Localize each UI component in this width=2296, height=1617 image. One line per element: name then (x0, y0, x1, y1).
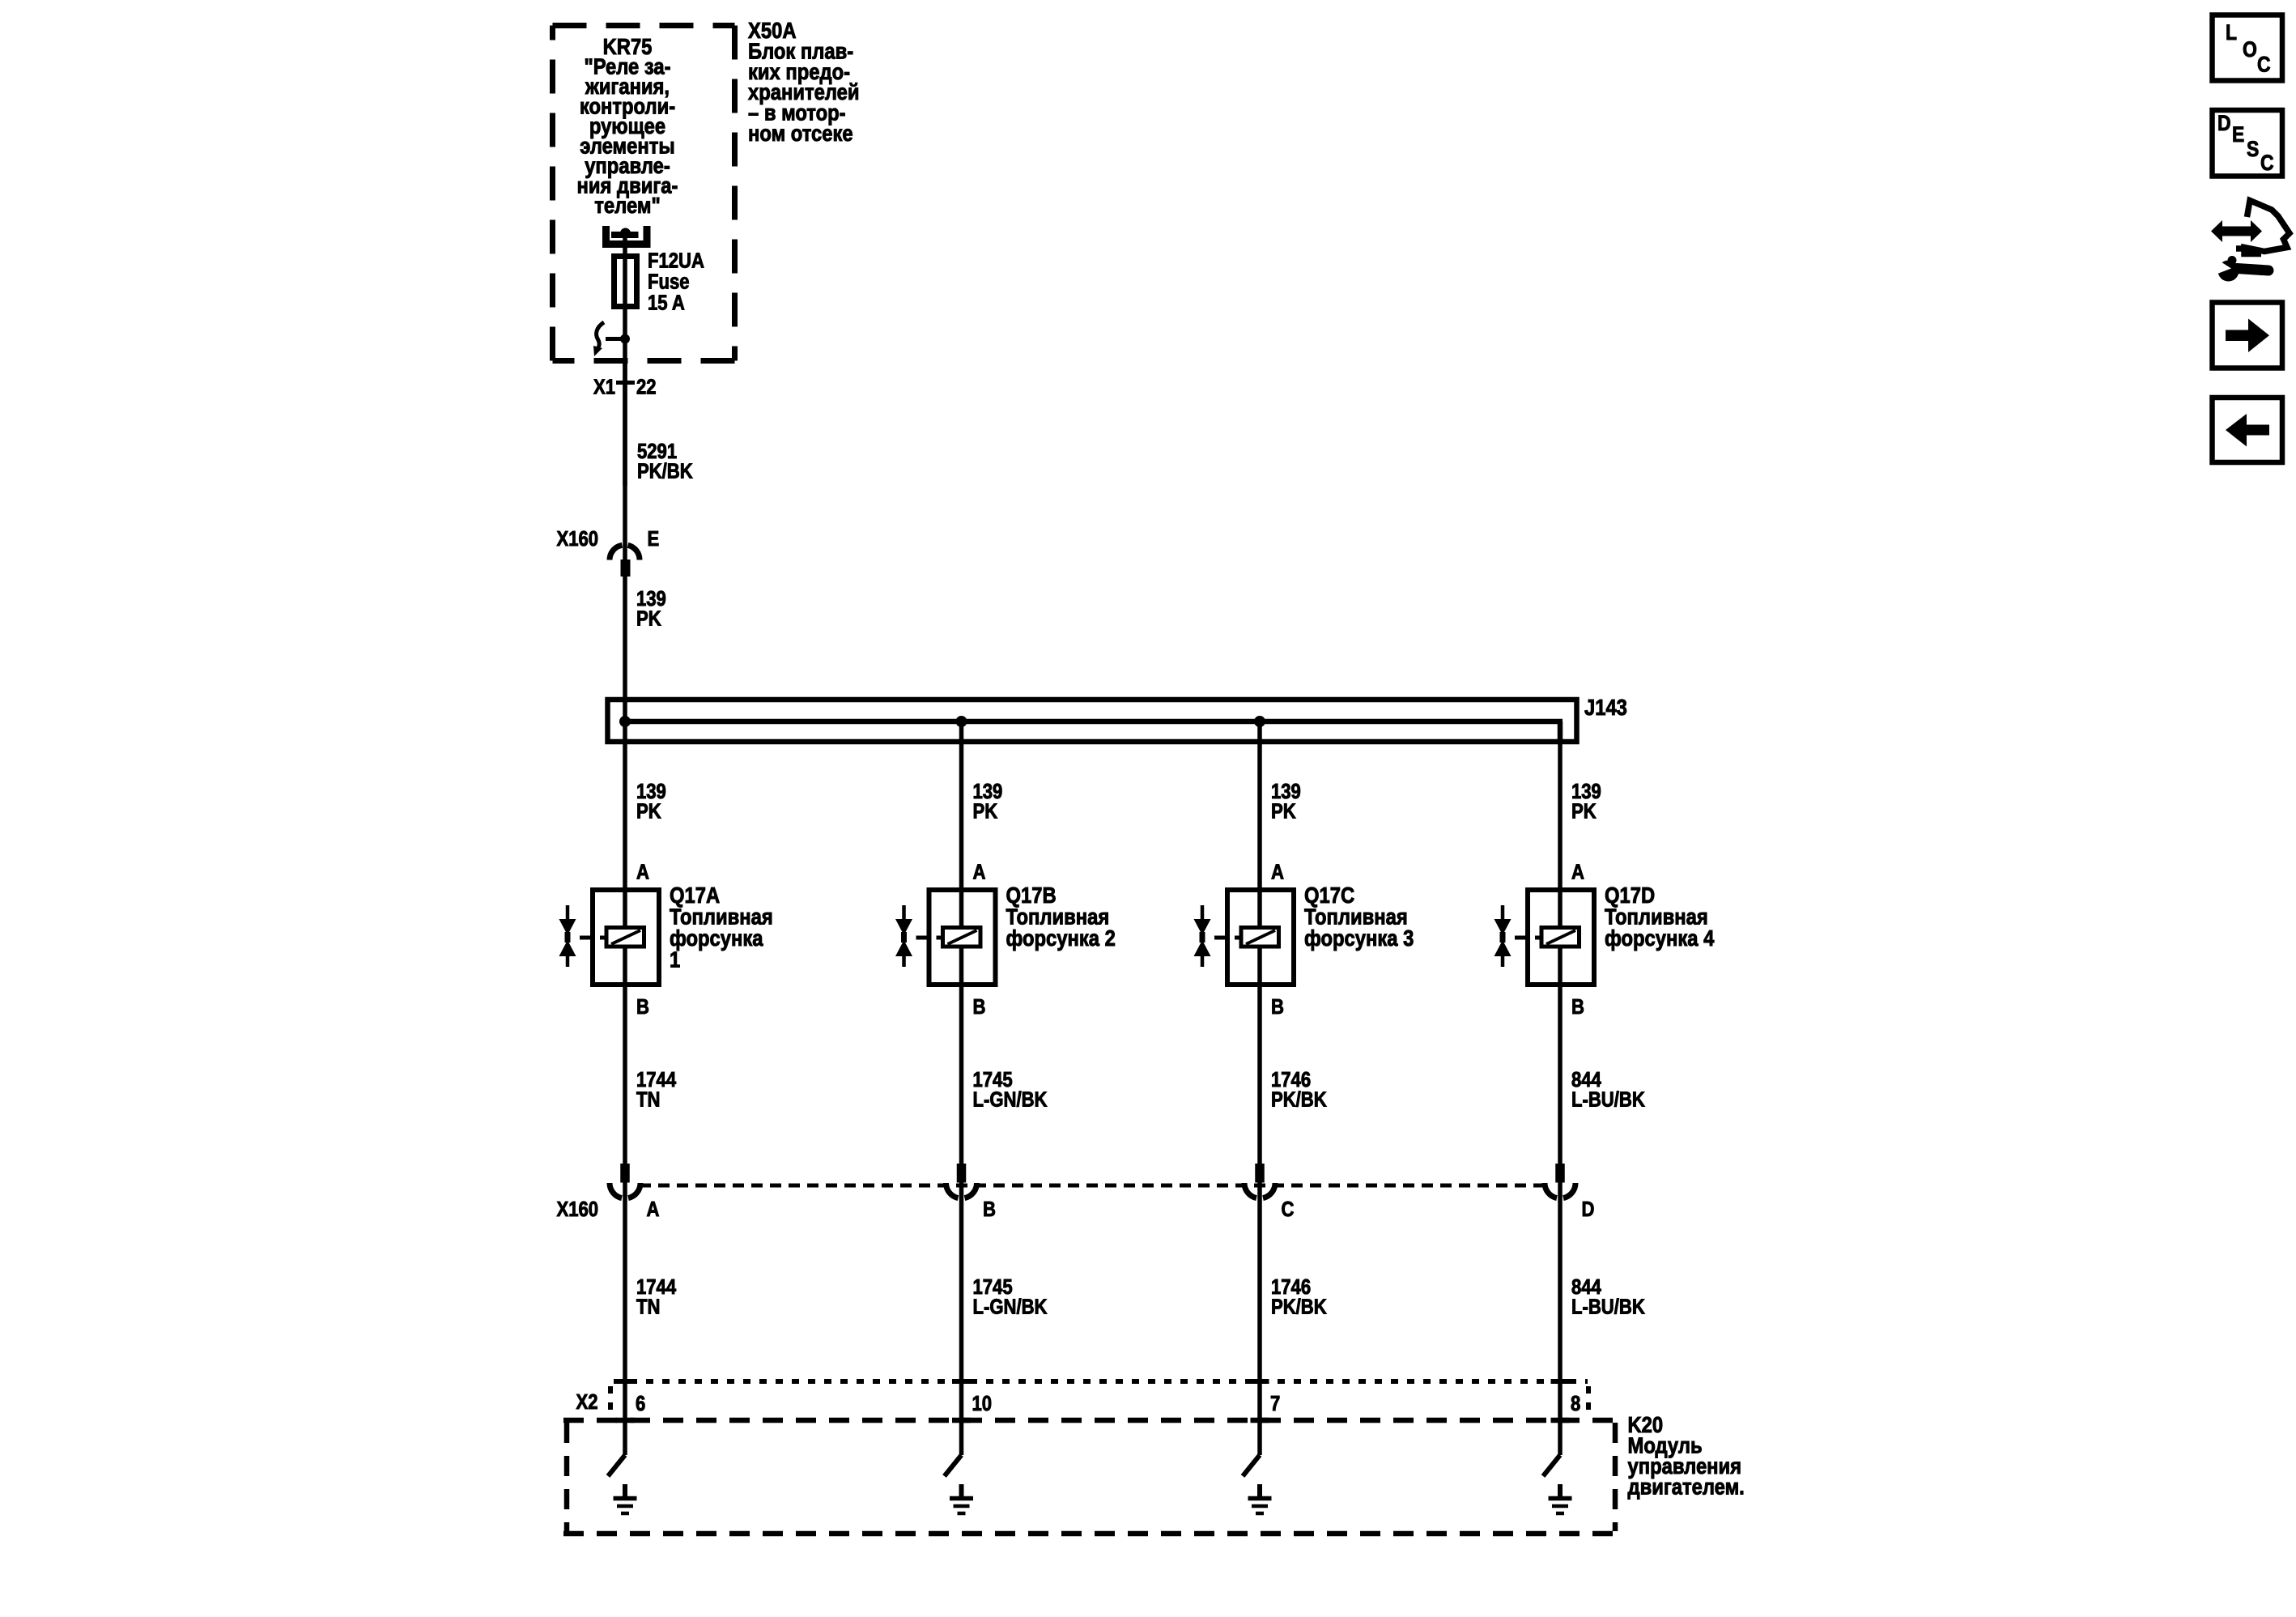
icon next arrow box (2213, 303, 2283, 368)
svg-text:Fuse: Fuse (648, 270, 690, 294)
wire 5291 PK/BK (623, 361, 627, 545)
injector Q17D label (1605, 882, 1715, 951)
driver switch (injector 2) (945, 1455, 962, 1476)
injector Q17C box (1227, 890, 1294, 985)
svg-text:форсунка 4: форсунка 4 (1605, 925, 1715, 951)
svg-text:TN: TN (636, 1088, 660, 1112)
K20 edge tick (wire 2) (952, 1418, 971, 1423)
svg-text:E: E (648, 527, 660, 551)
fuse block X50A (dashed box) (553, 26, 735, 361)
fuse F12UA (614, 257, 637, 307)
svg-text:B: B (1271, 995, 1284, 1019)
svg-text:двигателем.: двигателем. (1628, 1474, 1745, 1500)
icon DESC box (2213, 110, 2283, 177)
injector Q17B box (929, 890, 996, 985)
wire 139 label (branch 1) (636, 780, 666, 823)
svg-text:X160: X160 (557, 1198, 599, 1221)
wire 5291 label (637, 440, 693, 483)
svg-text:L-BU/BK: L-BU/BK (1571, 1088, 1645, 1112)
relay KR75 contact (606, 226, 648, 245)
svg-text:X160: X160 (557, 527, 599, 551)
svg-text:8: 8 (1571, 1392, 1580, 1415)
svg-text:PK: PK (973, 800, 998, 823)
svg-text:A: A (647, 1198, 660, 1221)
svg-text:X2: X2 (576, 1390, 598, 1414)
ground (injector 1 driver) (614, 1484, 637, 1513)
svg-text:O: O (2243, 37, 2257, 62)
svg-text:E: E (2232, 122, 2244, 147)
wire 1744 label (lower) (636, 1275, 677, 1319)
driver switch (injector 3) (1243, 1455, 1260, 1476)
injector Q17C label (1304, 882, 1414, 951)
svg-text:PK: PK (636, 607, 661, 631)
connector X160 line (dashed) (640, 1184, 1544, 1188)
svg-text:PK: PK (1571, 800, 1597, 823)
connector X160 pin B (946, 1164, 976, 1198)
ground (injector 2 driver) (950, 1484, 973, 1513)
connector X2 line (dotted) (610, 1381, 1588, 1415)
ECM K20 box (dashed) (563, 1420, 1618, 1534)
svg-text:L-GN/BK: L-GN/BK (973, 1296, 1048, 1319)
ECM K20 label (1628, 1411, 1745, 1500)
wire 1746 label (lower) (1271, 1275, 1327, 1319)
svg-text:10: 10 (972, 1392, 993, 1415)
svg-text:ном отсеке: ном отсеке (748, 120, 853, 146)
svg-text:форсунка 3: форсунка 3 (1304, 925, 1414, 951)
icon LOC box (2213, 15, 2283, 81)
injector Q17B coil (937, 928, 981, 947)
injector Q17A box (593, 890, 659, 985)
svg-text:1: 1 (670, 947, 680, 972)
connector X2 pin 8 tick (1551, 1379, 1570, 1384)
svg-text:D: D (1582, 1198, 1595, 1221)
connector X160 pin D (1545, 1164, 1575, 1198)
injector Q17D coil (1535, 928, 1580, 947)
K20 edge tick (wire 3) (1251, 1418, 1269, 1423)
svg-text:PK/BK: PK/BK (1271, 1296, 1327, 1319)
svg-text:L-GN/BK: L-GN/BK (973, 1088, 1048, 1112)
connector X160 pin A (610, 1164, 640, 1198)
injector Q17B nozzle (895, 905, 927, 967)
wire 844 label (lower) (1571, 1275, 1645, 1319)
wire (relay to X1 pin 22) (623, 233, 627, 486)
injector Q17D box (1528, 890, 1594, 985)
injector Q17A label (670, 882, 773, 972)
junction dot (wire 2) (956, 716, 967, 727)
switch (ignition feed contact) (593, 322, 630, 356)
injector Q17B label (1006, 882, 1116, 951)
icon repair (double arrow) (2211, 220, 2262, 242)
svg-text:PK: PK (636, 800, 661, 823)
wire 1746 label (upper) (1271, 1068, 1327, 1112)
svg-text:PK/BK: PK/BK (637, 460, 693, 483)
svg-text:J143: J143 (1584, 694, 1627, 720)
svg-text:C: C (1282, 1198, 1295, 1221)
svg-text:B: B (636, 995, 649, 1019)
driver switch (injector 1) (608, 1455, 625, 1476)
injector Q17C nozzle (1194, 905, 1226, 967)
wire 844 label (upper) (1571, 1068, 1645, 1112)
K20 edge tick (wire 4) (1551, 1418, 1570, 1423)
connector X1 pin 22 tick (616, 381, 635, 385)
wire (injector 4 branch) (1558, 721, 1563, 1455)
injector Q17C coil (1235, 928, 1279, 947)
wire 139 label (branch 4) (1571, 780, 1601, 823)
fuse F12UA value label (648, 249, 704, 315)
svg-text:C: C (2257, 53, 2271, 77)
svg-text:B: B (983, 1198, 996, 1221)
connector X2 pin 7 tick (1251, 1379, 1269, 1384)
relay KR75 label (577, 33, 678, 218)
connector X160 pin C (1244, 1164, 1275, 1198)
icon repair (hand outline) (2236, 201, 2290, 254)
connector X50A label (748, 17, 860, 146)
svg-text:A: A (636, 861, 649, 884)
svg-text:B: B (1571, 995, 1584, 1019)
svg-text:F12UA: F12UA (648, 249, 704, 273)
driver switch (injector 4) (1543, 1455, 1560, 1476)
svg-text:7: 7 (1270, 1392, 1280, 1415)
wire 139 label (feed) (636, 587, 666, 631)
ground (injector 3 driver) (1248, 1484, 1272, 1513)
svg-text:15 A: 15 A (648, 291, 685, 315)
svg-text:PK/BK: PK/BK (1271, 1088, 1327, 1112)
svg-text:6: 6 (636, 1392, 645, 1415)
svg-text:X1: X1 (593, 376, 615, 399)
svg-text:L-BU/BK: L-BU/BK (1571, 1296, 1645, 1319)
svg-text:PK: PK (1271, 800, 1296, 823)
svg-text:D: D (2217, 111, 2231, 135)
injector Q17A coil (600, 928, 644, 947)
connector X160 pin E symbol (610, 545, 640, 577)
injector Q17A nozzle (559, 905, 591, 967)
svg-text:форсунка 2: форсунка 2 (1006, 925, 1116, 951)
wire 1745 label (lower) (973, 1275, 1048, 1319)
svg-text:форсунка: форсунка (670, 925, 763, 951)
connector X2 pin 10 tick (952, 1379, 971, 1384)
icon repair (wrench) (2217, 256, 2268, 282)
svg-text:A: A (973, 861, 986, 884)
wire (injector 2 branch) (959, 721, 964, 1455)
svg-text:B: B (973, 995, 986, 1019)
wire 1745 label (upper) (973, 1068, 1048, 1112)
ground (injector 4 driver) (1549, 1484, 1572, 1513)
icon previous arrow box (2213, 398, 2283, 462)
wire (injector 3 branch) (1257, 721, 1262, 1455)
svg-text:22: 22 (636, 376, 657, 399)
svg-text:L: L (2226, 20, 2237, 45)
wire 1744 label (upper) (636, 1068, 677, 1112)
injector Q17D nozzle (1495, 905, 1526, 967)
wire 139 PK (feed) (623, 545, 627, 721)
junction dot (wire 3) (1254, 716, 1265, 727)
svg-text:A: A (1571, 861, 1584, 884)
svg-text:C: C (2260, 151, 2274, 175)
svg-text:S: S (2247, 137, 2259, 161)
connector X2 pin 6 tick (616, 1379, 635, 1384)
splice pack J143 (608, 700, 1577, 744)
K20 edge tick (wire 1) (616, 1418, 635, 1423)
svg-text:TN: TN (636, 1296, 660, 1319)
junction dot (wire 1) (619, 716, 631, 727)
svg-text:телем": телем" (594, 192, 660, 218)
wire 139 label (branch 3) (1271, 780, 1301, 823)
wire 139 label (branch 2) (973, 780, 1003, 823)
wire (injector 1 branch) (623, 721, 627, 1455)
svg-text:A: A (1271, 861, 1284, 884)
